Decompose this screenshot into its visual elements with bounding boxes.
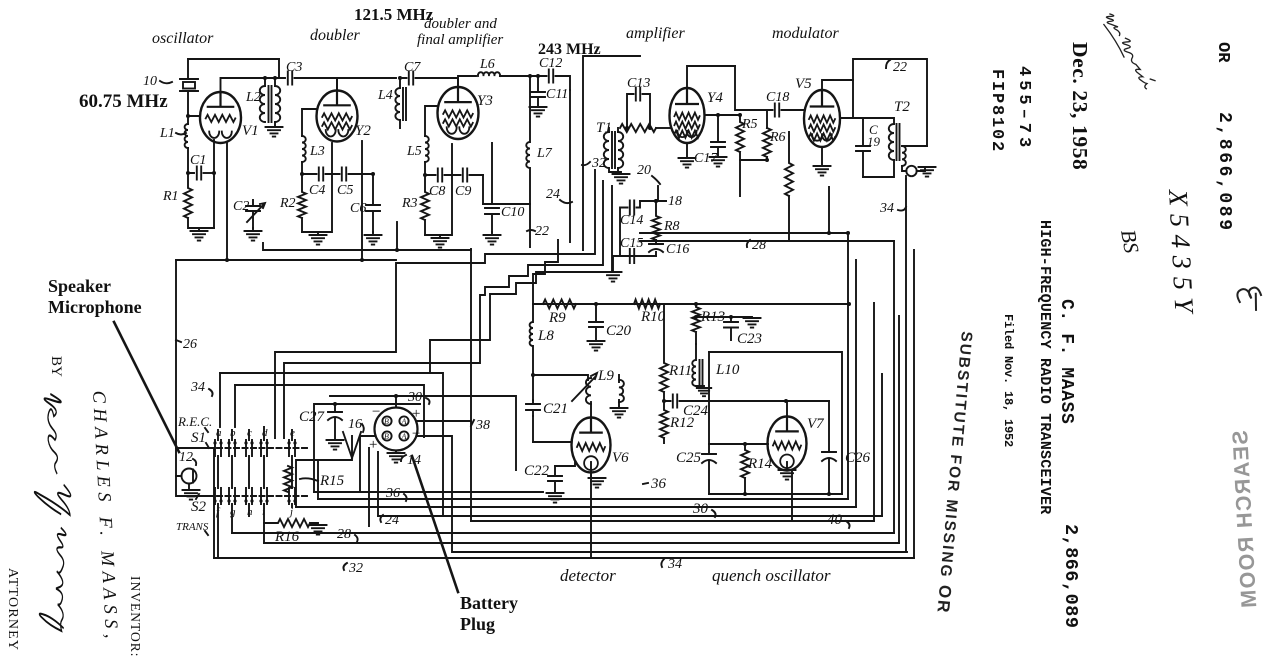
wire bus y507 [296, 506, 856, 508]
wire C6 node down [396, 222, 398, 250]
svg-text:b: b [230, 427, 236, 439]
wire C4 C5 branch [302, 173, 373, 175]
svg-text:R2: R2 [279, 196, 296, 211]
svg-text:R15: R15 [319, 473, 345, 489]
wire V4 top to R5 R6 node [735, 66, 767, 128]
wire switch rect top B left [234, 385, 236, 427]
capacitor C18 [775, 104, 779, 117]
svg-text:B: B [384, 432, 389, 441]
svg-text:S1: S1 [191, 430, 206, 446]
svg-text:A: A [401, 432, 407, 441]
wire grid node V2 to L3 [302, 109, 317, 174]
wire V1 cathode down [213, 140, 215, 228]
svg-text:Dec. 23, 1958: Dec. 23, 1958 [1068, 42, 1092, 170]
svg-text:C7: C7 [404, 60, 421, 75]
wire V4 plate node right [705, 114, 741, 116]
svg-text:38: 38 [475, 418, 490, 433]
ground below microphone [183, 490, 200, 500]
wire cascade s2 [284, 181, 603, 438]
svg-text:C3: C3 [286, 60, 302, 75]
svg-text:22: 22 [893, 60, 907, 75]
resistor R8 [652, 201, 660, 240]
capacitor C8 [438, 169, 442, 182]
tube V7 [768, 417, 807, 471]
svg-text:S2: S2 [191, 499, 207, 515]
svg-text:60.75 MHz: 60.75 MHz [79, 91, 168, 112]
handwritten examiner scrawl [1101, 7, 1156, 95]
wire V6 plate down [590, 472, 592, 558]
svg-text:R14: R14 [747, 456, 773, 472]
ground below C17 [710, 157, 727, 167]
tube V1 [200, 92, 241, 143]
wire top rail V1 plate [188, 58, 279, 60]
wire right vertical 914 [913, 250, 915, 558]
svg-text:C20: C20 [606, 323, 632, 339]
tube V2 [317, 91, 358, 142]
svg-text:C2: C2 [233, 199, 249, 214]
handwritten E mark [1237, 287, 1263, 312]
svg-text:Battery: Battery [460, 593, 518, 613]
wire V3 cathode down [451, 144, 453, 175]
svg-text:L5: L5 [406, 144, 422, 159]
wire V7 plate up [786, 401, 788, 416]
svg-text:BY: BY [48, 356, 64, 377]
inductor L3 [302, 136, 306, 162]
wire V1 heater down [226, 143, 228, 260]
wire quench grid row [709, 443, 768, 445]
ground below C20 [588, 341, 605, 351]
resistor R16 [264, 519, 318, 527]
resistor R5 [736, 115, 767, 160]
resistor R1 [184, 173, 199, 228]
svg-text:R10: R10 [640, 309, 666, 325]
wire right vertical 899 [898, 316, 900, 543]
svg-text:BS: BS [1116, 228, 1144, 256]
svg-text:C10: C10 [501, 205, 524, 220]
svg-text:L4: L4 [377, 88, 393, 103]
ground right of C23 [744, 318, 761, 328]
wire bus y521 [471, 520, 874, 522]
battery plug pointer line [412, 456, 458, 592]
capacitor C4 [319, 168, 323, 181]
speaker pointer line [114, 322, 179, 452]
svg-text:Microphone: Microphone [48, 297, 142, 317]
inductor L7 [526, 76, 530, 247]
wire plug right leads [418, 421, 472, 507]
svg-text:C16: C16 [666, 242, 689, 257]
capacitor C6 [366, 174, 380, 232]
wire L7 bottom to C10 node [492, 203, 530, 205]
wire plate bus to C3 [266, 77, 285, 79]
tube V6 [572, 418, 611, 473]
svg-text:C11: C11 [546, 87, 568, 102]
wire V4 plate up [687, 66, 735, 88]
ground below V7 cathode [786, 462, 788, 470]
transformer T2 [889, 124, 894, 160]
ground below V4 [686, 143, 688, 158]
inductor L1 [185, 124, 188, 148]
svg-text:C8: C8 [429, 184, 445, 199]
wire contact drops S1 [218, 456, 292, 488]
svg-text:Y4: Y4 [707, 90, 723, 106]
wire switch rect top A [220, 373, 443, 516]
svg-text:R9: R9 [548, 310, 566, 326]
svg-text:detector: detector [560, 566, 616, 585]
wire C18 to V5 grid [767, 109, 805, 111]
svg-text:T2: T2 [894, 99, 910, 115]
svg-text:−: − [371, 404, 381, 420]
wire 570 vertical [569, 90, 571, 242]
svg-text:R3: R3 [401, 196, 418, 211]
svg-text:V5: V5 [795, 76, 812, 92]
svg-text:HIGH-FREQUENCY RADIO TRANSCEIV: HIGH-FREQUENCY RADIO TRANSCEIVER [1036, 220, 1053, 514]
inductor L8 [530, 304, 533, 375]
wire 20 stub [657, 186, 659, 201]
capacitor C20 [589, 304, 603, 341]
ground below R3 [425, 175, 452, 238]
wire cascade s3 [533, 240, 558, 304]
svg-text:L6: L6 [479, 57, 495, 72]
svg-text:C12: C12 [539, 56, 562, 71]
svg-text:oscillator: oscillator [152, 30, 214, 47]
wire right vertical 906 [905, 179, 907, 552]
ground below C2 [245, 231, 262, 241]
svg-text:INVENTOR:: INVENTOR: [128, 576, 143, 658]
ground below C22 [547, 493, 564, 503]
ground below V5 [821, 147, 823, 166]
wire V6 grid row left [533, 441, 572, 443]
capacitor C16 polarized [649, 240, 663, 244]
wire 36 left connection [296, 460, 318, 507]
svg-text:doubler: doubler [310, 27, 361, 44]
resistor R12 [660, 401, 668, 443]
capacitor C1 [197, 167, 201, 180]
svg-text:doubler and: doubler and [424, 16, 497, 32]
wire L4 connections [399, 78, 401, 128]
wire node 18 [640, 200, 666, 202]
svg-text:R.E.C.: R.E.C. [177, 414, 212, 429]
ground below L2 [266, 127, 283, 137]
wire V2 cathode down [331, 143, 333, 174]
svg-text:34: 34 [879, 201, 894, 216]
svg-text:C22: C22 [524, 463, 550, 479]
switch S1 contacts [215, 440, 221, 456]
capacitor C7 [409, 72, 413, 85]
svg-text:L7: L7 [536, 146, 553, 161]
wire C7 leads [400, 78, 458, 85]
wire detector left vertical [532, 375, 534, 442]
wire bus y233 [640, 232, 848, 234]
svg-text:modulator: modulator [772, 25, 839, 42]
svg-text:A: A [401, 417, 407, 426]
svg-text:L10: L10 [715, 362, 740, 378]
wire C9 to C10 [482, 175, 484, 204]
svg-text:20: 20 [637, 163, 651, 178]
svg-text:R6: R6 [769, 130, 786, 145]
wire detector top rail [533, 303, 849, 305]
svg-text:d: d [262, 427, 268, 439]
switch S1 row [200, 447, 310, 449]
svg-text:g: g [230, 506, 236, 518]
wire bus y533 [232, 532, 894, 534]
wire V5 plate top right [822, 80, 863, 118]
capacitor C23 [696, 317, 752, 340]
wire bus y552 [452, 507, 907, 552]
svg-text:455–73: 455–73 [1014, 66, 1033, 151]
svg-text:121.5 MHz: 121.5 MHz [354, 5, 434, 24]
wire T2 ground branch 34 [905, 176, 907, 179]
wire 22 top right [853, 59, 927, 146]
svg-text:10: 10 [143, 74, 157, 89]
inductor L9 secondary [619, 380, 624, 402]
svg-text:24: 24 [385, 513, 399, 528]
svg-text:C26: C26 [845, 450, 871, 466]
wire contact bottoms S2 [218, 504, 292, 558]
wire right vertical 874 [873, 303, 875, 521]
ground below L10 [696, 386, 704, 388]
wire 243MHz vertical 583 [583, 56, 640, 250]
svg-text:C21: C21 [543, 401, 568, 417]
wire right vertical 894 [893, 241, 895, 533]
svg-text:19: 19 [867, 134, 881, 149]
svg-text:36: 36 [650, 476, 667, 492]
svg-text:FIP8102: FIP8102 [987, 69, 1006, 153]
wire L6 to C12 [500, 75, 530, 77]
resistor R9 [543, 300, 576, 309]
switch S2 contacts [215, 488, 221, 504]
resistor R10 [634, 300, 660, 309]
resistor R2 [298, 174, 306, 232]
svg-text:12: 12 [179, 450, 193, 465]
resistor R11 [660, 304, 668, 401]
wire plug lower leads [314, 491, 543, 493]
capacitor C11 [531, 76, 545, 107]
svg-text:36: 36 [385, 486, 400, 501]
svg-text:L9: L9 [597, 368, 614, 384]
svg-text:40: 40 [827, 512, 843, 528]
svg-text:V7: V7 [807, 416, 825, 432]
wire C12 leads [530, 76, 570, 90]
tube V5 [804, 90, 840, 147]
svg-text:34: 34 [190, 380, 205, 395]
transformer L4 [395, 88, 400, 120]
capacitor C26 [822, 401, 836, 452]
svg-text:R1: R1 [162, 189, 179, 204]
svg-text:22: 22 [535, 224, 549, 239]
svg-text:−: − [411, 426, 421, 442]
transformer T1 [604, 132, 609, 168]
svg-text:Filed Nov. 18, 1952: Filed Nov. 18, 1952 [1001, 314, 1015, 447]
ground below C6 [365, 235, 382, 245]
wire V3 plate up [458, 76, 476, 87]
capacitor C12 [549, 70, 553, 83]
svg-text:Speaker: Speaker [48, 276, 111, 296]
wire right vertical 856 [855, 260, 857, 507]
wire C15 leads [620, 255, 656, 257]
wire resistor to V4 grid [656, 127, 670, 129]
wire bus y543 [264, 542, 899, 544]
svg-text:26: 26 [183, 337, 197, 352]
wire T2 secondary to earpiece [902, 146, 927, 171]
resistor R15 [284, 466, 292, 492]
ground right of R16 [310, 525, 327, 535]
svg-text:a: a [216, 427, 222, 439]
wire right vertical 848 [847, 233, 849, 499]
capacitor C19 [856, 118, 870, 177]
wire L9 to V6 grid [590, 402, 592, 418]
svg-text:R16: R16 [274, 529, 300, 545]
svg-text:R12: R12 [669, 415, 695, 431]
svg-text:h: h [247, 506, 253, 518]
resistor R6 [763, 128, 771, 160]
wire bus y250 [263, 243, 471, 250]
svg-text:Y3: Y3 [477, 93, 493, 109]
capacitor C5 [342, 168, 346, 181]
inductor L9 variable [586, 378, 591, 404]
svg-text:C13: C13 [627, 76, 650, 91]
svg-text:18: 18 [668, 194, 682, 209]
inductor L5 [425, 136, 429, 162]
capacitor C27 [328, 404, 342, 412]
capacitor C3 [288, 72, 292, 85]
capacitor C13 branch [627, 94, 650, 128]
wire S2 row left [176, 448, 214, 558]
wire bus y558 [214, 557, 914, 559]
inductor L6 [478, 72, 500, 76]
svg-text:C23: C23 [737, 331, 762, 347]
svg-text:2,866,089: 2,866,089 [1060, 524, 1081, 628]
svg-text:L1: L1 [159, 126, 175, 141]
svg-text:ATTORNEY: ATTORNEY [5, 568, 20, 651]
antenna 16 [343, 432, 361, 458]
tube V3 [438, 87, 479, 139]
capacitor C22 [548, 466, 562, 493]
wire C14 branch [620, 201, 640, 256]
svg-text:C6: C6 [350, 201, 366, 216]
signature Homer R. Montague [28, 394, 78, 633]
wire L1 to C1 node [188, 116, 194, 173]
svg-text:+: + [411, 406, 421, 422]
capacitor C14 [630, 201, 634, 215]
svg-text:OR: OR [1213, 42, 1232, 63]
svg-text:C4: C4 [309, 183, 325, 198]
svg-text:B: B [384, 417, 389, 426]
wire C3 to V2 grid [295, 78, 338, 92]
ground below C11 [530, 107, 547, 117]
crystal 10 [180, 79, 198, 91]
svg-text:28: 28 [337, 527, 351, 542]
svg-text:C14: C14 [620, 213, 643, 228]
svg-text:V1: V1 [242, 123, 259, 139]
wire mic to switch rows [176, 448, 214, 476]
svg-text:32: 32 [348, 561, 363, 576]
svg-text:quench oscillator: quench oscillator [712, 566, 831, 585]
wire L9 secondary ground [618, 375, 620, 408]
wire plug box [314, 404, 420, 492]
wire cascade s1 [275, 170, 595, 438]
wire 26 left vertical [175, 260, 177, 448]
ground below V1 stage [199, 228, 214, 231]
wire V2 plate up [337, 78, 396, 90]
tube V4 [670, 88, 705, 143]
wire quench box top [709, 352, 842, 494]
wire L9 row [533, 375, 588, 380]
svg-text:R11: R11 [668, 363, 692, 379]
ground below T1 [613, 174, 630, 184]
wire plug left lead [360, 436, 375, 492]
wire T1 primary [609, 128, 618, 172]
svg-text:Y2: Y2 [355, 123, 371, 139]
svg-text:C18: C18 [766, 90, 789, 105]
svg-text:C1: C1 [190, 153, 206, 168]
resistor R13 [692, 304, 700, 344]
svg-text:R5: R5 [741, 117, 758, 132]
svg-text:L3: L3 [309, 144, 325, 159]
svg-text:amplifier: amplifier [626, 25, 685, 42]
wire bus y499 [318, 498, 848, 500]
svg-text:C. F. MAASS: C. F. MAASS [1056, 299, 1076, 424]
capacitor C10 [483, 143, 499, 232]
capacitor C24 [673, 395, 677, 408]
wire C22 connects V6 left [555, 462, 575, 466]
wire quench box left [708, 352, 710, 444]
wire plug top lead [330, 396, 516, 470]
microphone [182, 469, 197, 484]
wire bus y260 [176, 259, 396, 261]
svg-text:2,866,089: 2,866,089 [1214, 112, 1234, 233]
svg-text:C9: C9 [455, 184, 471, 199]
svg-text:C25: C25 [676, 450, 702, 466]
ground below C27 [327, 440, 344, 450]
resistor R3 [421, 175, 429, 235]
svg-text:34: 34 [667, 557, 682, 572]
ground below R2 [302, 232, 318, 235]
wire C24 row [664, 400, 829, 402]
wire V1 plate up [221, 78, 264, 92]
ground below V6 [590, 462, 592, 476]
svg-text:L8: L8 [537, 328, 554, 344]
battery plug pins [382, 416, 391, 425]
earpiece jack [906, 166, 916, 176]
wire bus y516 [378, 515, 882, 517]
capacitor C17 [711, 115, 725, 157]
svg-text:30: 30 [407, 390, 422, 405]
svg-text:L2: L2 [245, 90, 261, 105]
ground below battery plug [395, 451, 397, 454]
wire switch rect top A left [219, 373, 221, 427]
capacitor C15 [630, 249, 634, 263]
wire C8 C9 branch [425, 174, 483, 176]
inductor L10 [692, 344, 696, 386]
wire ground stub mid block [613, 256, 620, 272]
svg-text:16: 16 [348, 417, 362, 432]
wire antenna branch [314, 455, 352, 460]
svg-text:C5: C5 [337, 183, 353, 198]
svg-text:C27: C27 [299, 409, 326, 425]
wire switch rect top B [235, 385, 424, 437]
resistor T1 grid resistor [620, 124, 656, 132]
battery plug circle [375, 408, 418, 451]
ground below C10 [484, 235, 501, 245]
svg-text:Plug: Plug [460, 614, 495, 634]
resistor R14 [741, 444, 749, 494]
resistor below V5 grid [785, 132, 793, 233]
wire bus y241 [640, 240, 894, 242]
switch S2 row [200, 495, 310, 497]
wire contact tops [218, 427, 292, 440]
wire C16 to ground node [620, 252, 656, 256]
capacitor C9 [463, 169, 467, 182]
